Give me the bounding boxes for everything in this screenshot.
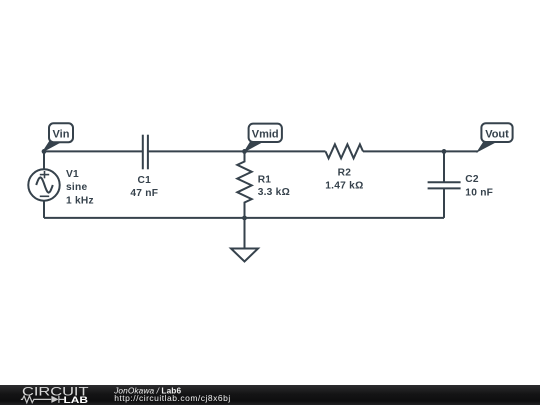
ground [231, 218, 258, 262]
node dot C2 top [442, 149, 447, 154]
label C1 value [130, 175, 158, 199]
svg-text:10 nF: 10 nF [465, 187, 493, 198]
node dot Vmid [242, 149, 247, 154]
wire V1 bottom lead [43, 201, 45, 218]
svg-text:R2: R2 [338, 167, 352, 178]
svg-text:http://circuitlab.com/cj8x6bj: http://circuitlab.com/cj8x6bj [114, 393, 231, 403]
resistor R2 [326, 144, 364, 158]
svg-text:C2: C2 [465, 174, 479, 185]
node flag Vmid [245, 124, 282, 152]
svg-text:LAB: LAB [64, 395, 89, 405]
svg-text:Vin: Vin [53, 128, 70, 140]
wire V1 top lead [43, 151, 45, 169]
capacitor C1 [143, 135, 148, 170]
label C2 value [465, 174, 493, 198]
CircuitLab logo wordmark CIRCUIT [22, 385, 89, 399]
svg-text:1.47 kΩ: 1.47 kΩ [325, 180, 363, 191]
label V1 value [66, 169, 94, 206]
label R1 value [258, 174, 290, 198]
svg-text:C1: C1 [138, 175, 152, 186]
node dot Vin [42, 149, 47, 154]
wire from R2 to Vout end through C2 node [363, 150, 478, 152]
wire top-left from Vin node to C1 [44, 150, 142, 152]
footer url text [114, 393, 231, 403]
node flag Vout [478, 123, 513, 151]
svg-text:R1: R1 [258, 174, 272, 185]
svg-text:Vmid: Vmid [252, 129, 279, 141]
CircuitLab logo resistor-diode glyph [21, 396, 64, 403]
label R2 value [325, 167, 363, 191]
wire from C1 to R2 through Vmid [148, 150, 326, 152]
svg-text:1 kHz: 1 kHz [66, 195, 94, 206]
svg-text:Vout: Vout [485, 129, 509, 141]
wire bottom rail [44, 217, 444, 219]
voltage source V1 [28, 169, 59, 200]
node dot bottom junction [242, 216, 247, 221]
footer title text [113, 386, 181, 396]
resistor R1 [237, 151, 251, 218]
svg-text:sine: sine [66, 182, 87, 193]
svg-text:V1: V1 [66, 169, 79, 180]
svg-text:3.3 kΩ: 3.3 kΩ [258, 187, 290, 198]
capacitor C2 [428, 151, 461, 218]
CircuitLab logo wordmark LAB [64, 395, 89, 405]
footer bar [0, 385, 540, 405]
node flag Vin [43, 123, 73, 151]
svg-text:47 nF: 47 nF [130, 188, 158, 199]
